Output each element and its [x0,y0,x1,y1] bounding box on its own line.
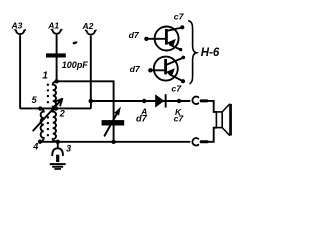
transformer core dots [47,84,49,137]
speaker body [216,112,222,128]
wire A1 vertical [56,36,58,82]
variable capacitor arrow [105,114,117,136]
connector top socket arc [192,97,198,104]
capacitor C1 100pF plate [46,53,66,57]
antenna A1 [51,29,62,33]
transistor Q1 base lead [148,38,166,40]
node A2 junction dot [89,99,94,104]
svg-text:2: 2 [59,109,65,119]
node 5 dot [38,106,42,110]
svg-text:c7: c7 [174,113,185,123]
node A junction dot [142,99,146,103]
node junction dot at C1/coil top [54,79,58,83]
svg-text:c7: c7 [171,84,182,94]
svg-text:1: 1 [42,70,48,81]
svg-text:d7: d7 [136,113,148,123]
diode D1 [155,94,164,107]
svg-text:d7: d7 [129,30,140,40]
node 3 dot [56,140,60,144]
ground rail [40,141,190,143]
node K junction dot [177,99,181,103]
stray print mark [72,41,77,45]
ground connector socket arc [52,148,63,155]
wire plug to speaker top [208,101,216,112]
transistor Q2 emitter lead with arrow [170,74,184,81]
wire variable capacitor to ground rail [113,126,115,142]
svg-text:A1: A1 [47,20,59,30]
svg-text:c7: c7 [174,12,185,22]
brace H-6 [189,21,197,84]
connector top plug [200,99,209,102]
svg-text:A3: A3 [11,20,23,30]
wire detector row [91,100,190,102]
wire top: node 1 to variable capacitor [57,81,114,120]
transistor Q2 collector lead [166,58,183,65]
wire A3 vertical and horizontal to tap 5 [20,36,56,109]
ground connector plug [56,155,59,162]
wire tap 2 to node A2 [56,101,91,108]
svg-text:H-6: H-6 [201,47,220,59]
svg-text:5: 5 [32,95,38,105]
transistor Q1 base bar [165,29,168,45]
speaker cone [222,104,229,135]
transformer L2 left winding [40,109,44,142]
wire plug to speaker bottom [209,128,217,142]
connector bottom plug [200,140,209,143]
ground connector stem [57,142,59,148]
transformer L1 right winding upper [53,81,57,108]
ground symbol [50,163,66,170]
node 4 dot [38,140,42,144]
node 2 dot [54,106,58,110]
svg-text:d7: d7 [130,64,141,74]
variable inductor arrow [33,99,62,131]
transistor Q2 base bar [164,59,167,74]
antenna A2 [86,30,97,34]
transistor Q2 circle [154,57,178,81]
transistor Q2 base lead [152,69,165,71]
transistor Q1 emitter lead with arrow [170,45,181,50]
svg-text:3: 3 [66,143,71,153]
node junction C2/rail [111,140,115,144]
wire A2 vertical [90,36,92,101]
svg-text:100pF: 100pF [62,60,89,70]
svg-text:A2: A2 [82,21,94,31]
antenna A3 [15,30,26,34]
transformer L1 right winding lower [53,109,58,142]
svg-text:4: 4 [32,142,38,152]
transistor Q1 collector lead [167,28,183,31]
connector bottom socket arc [192,138,198,145]
variable capacitor C2 plates [102,120,125,125]
transistor Q1 circle [155,27,179,51]
